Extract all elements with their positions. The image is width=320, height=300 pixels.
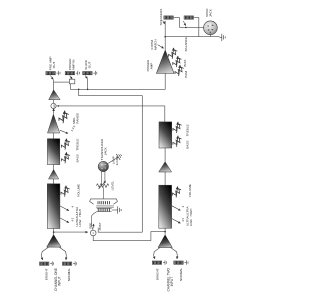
ground J8 tip	[163, 260, 167, 264]
jack switch loop J2	[69, 79, 74, 84]
ground J9 tip	[185, 260, 189, 264]
svg-text:HIGH: HIGH	[189, 209, 193, 217]
resistor VR10 hum pot	[172, 64, 185, 77]
wire speaker jack A lead	[174, 18, 180, 28]
resistor VR3 bass pot	[59, 152, 72, 165]
transformer T1 core	[96, 205, 114, 207]
svg-text:BASS: BASS	[76, 154, 80, 162]
wire tip bus to speaker connector	[179, 26, 203, 28]
svg-text:BALANCE: BALANCE	[184, 37, 188, 51]
wire sleeve bus to ground	[165, 36, 219, 38]
junction dot tip bus	[185, 27, 187, 29]
ground J4 tip	[50, 261, 54, 265]
svg-text:& GND: & GND	[115, 156, 119, 165]
wire U8 base to normal jack	[171, 248, 178, 256]
op-amp U2 tone amp	[48, 114, 60, 133]
transformer T1 secondary winding	[97, 207, 112, 209]
svg-text:OUT: OUT	[52, 62, 56, 69]
wire channel two S3 to U7	[164, 148, 166, 162]
resistor VR5 treble pot channel two	[170, 121, 183, 134]
op-amp U8 channel two preamp	[158, 235, 172, 248]
slider S3 bass-treble channel two	[159, 122, 172, 148]
wire channel two S4 to U8	[164, 228, 166, 235]
svg-text:INPUT: INPUT	[170, 277, 174, 287]
slider S2 volume	[47, 184, 60, 229]
junction dot sleeve bus	[164, 36, 166, 38]
svg-text:VOLUME: VOLUME	[188, 184, 192, 197]
svg-text:HIGH: HIGH	[78, 209, 82, 217]
connector J5 normal input channel one	[62, 262, 71, 265]
connector P1 speaker plug	[204, 21, 218, 35]
wire transducer leads	[101, 172, 103, 185]
connector J7 speaker jack B	[184, 16, 193, 19]
ground J2 tip	[76, 71, 80, 75]
wire main bus to power amp	[70, 73, 165, 89]
transformer T1 reverb primary shell	[90, 199, 118, 204]
svg-text:AMP IN: AMP IN	[71, 60, 75, 71]
wire mixer to channel two bus	[56, 106, 165, 122]
resistor VR11 level pot	[96, 181, 108, 189]
op-amp U3	[49, 170, 59, 180]
svg-text:LEVEL: LEVEL	[110, 180, 114, 190]
resistor VR7 volume pot channel two	[170, 186, 183, 199]
wire loop to main bus	[69, 84, 71, 90]
switch ultra high channel two	[172, 206, 181, 211]
ground J5 tip	[73, 261, 77, 265]
wire U4 base to bright jack	[41, 247, 48, 255]
svg-text:HUM: HUM	[184, 71, 188, 78]
switch mid-range selector arm	[60, 130, 68, 133]
junction dot bus A	[78, 89, 80, 91]
wire jack bus upper	[54, 81, 70, 83]
switch ultra low channel two	[172, 219, 181, 224]
ground J1 tip	[57, 71, 61, 75]
op-amp U1 channel one booster	[49, 90, 60, 100]
wire post contact to riser	[98, 228, 142, 233]
svg-text:NORMAL: NORMAL	[67, 268, 71, 282]
resistor VR4 volume pot	[58, 185, 71, 198]
svg-text:VOLUME: VOLUME	[76, 184, 80, 197]
wire power amp output riser	[164, 21, 166, 50]
wire 4 ohm match arrow	[158, 45, 164, 49]
junction dot bus B	[87, 89, 89, 91]
svg-text:PRE: PRE	[88, 223, 92, 229]
connector J9 normal input channel two	[174, 261, 183, 264]
svg-text:1 3 5: 1 3 5	[70, 124, 77, 132]
resistor VR8 balance pot	[166, 47, 179, 60]
wire lamp lead	[108, 158, 117, 163]
wire J2 contact	[70, 76, 73, 79]
svg-text:BRIGHT: BRIGHT	[44, 268, 48, 280]
svg-text:SPEAKERS: SPEAKERS	[159, 9, 163, 26]
wire S2 to U4	[53, 229, 55, 235]
wire J7 contact	[183, 21, 185, 26]
wire U2 to mixer arrow	[53, 109, 55, 114]
connector J6 speaker jack A	[164, 16, 173, 19]
op-amp U7 channel two	[159, 162, 172, 172]
wire reverb secondary to ground	[112, 209, 116, 211]
wire preamp-out riser to amp U1 apex	[53, 80, 55, 90]
switch SW1 pre-post selector	[90, 230, 96, 236]
svg-text:RANGE: RANGE	[75, 113, 79, 124]
svg-text:MATCH: MATCH	[154, 39, 158, 50]
wire level to reverb transformer	[102, 187, 104, 199]
slider S1 bass-treble	[47, 139, 59, 165]
resistor VR2 treble pot	[59, 138, 72, 151]
svg-text:TREBLE: TREBLE	[185, 124, 189, 136]
wire post branch down	[79, 89, 143, 232]
svg-text:JACK: JACK	[103, 146, 107, 155]
ground J3 tip	[93, 71, 97, 75]
wire J6 contact	[163, 21, 165, 24]
svg-text:INPUT: INPUT	[57, 276, 61, 286]
svg-text:LOW: LOW	[78, 219, 82, 226]
connector J4 bright input channel one	[40, 262, 49, 265]
junction dot channel one out	[53, 231, 55, 233]
connector J2 power amp in	[65, 72, 74, 75]
transformer T1 primary winding	[98, 201, 109, 204]
svg-text:TREBLE: TREBLE	[76, 139, 80, 151]
slider S4 volume channel two	[159, 185, 172, 228]
wire S1 to U3	[53, 165, 55, 170]
connector J1 pre amp out	[46, 72, 55, 75]
svg-text:POST: POST	[98, 222, 102, 230]
ground speaker return	[220, 34, 226, 41]
ground lamp	[114, 152, 123, 161]
wire U4 base to normal jack	[59, 247, 66, 255]
wire J1 contact	[50, 76, 53, 80]
switch arm arrow	[92, 224, 95, 228]
wire U8 base to bright jack	[154, 248, 160, 256]
svg-text:OUT: OUT	[88, 62, 92, 69]
svg-text:JACK: JACK	[209, 8, 213, 17]
wire U2 to slider S1	[53, 133, 55, 139]
wire switch common to channel two	[93, 232, 165, 241]
node mixer M1	[51, 103, 56, 108]
wire channel one preamp line to reverb switch	[54, 231, 88, 233]
switch ultra high channel one	[60, 206, 69, 211]
resistor VR6 bass pot channel two	[170, 135, 183, 148]
svg-text:BRIGHT: BRIGHT	[156, 268, 160, 280]
wire reverb secondary to switch	[92, 212, 97, 230]
junction dot mixer out	[58, 105, 60, 107]
svg-text:LOW: LOW	[189, 219, 193, 226]
ground reverb	[116, 206, 122, 213]
svg-text:BIAS: BIAS	[183, 60, 187, 67]
junction dot channel two out	[164, 231, 166, 233]
svg-text:AMP: AMP	[149, 63, 153, 70]
switch ultra low channel one	[60, 218, 69, 223]
connector P2 transducer jack	[98, 161, 108, 171]
connector J8 bright input channel two	[152, 261, 161, 264]
wire slave-out riser	[87, 79, 89, 89]
wire connector stub	[209, 35, 211, 37]
wire U3 to slider S2	[53, 179, 55, 184]
wire speaker jack B lead	[194, 18, 199, 37]
op-amp U4 channel one preamp	[47, 235, 61, 247]
connector J3 slave out	[83, 72, 92, 75]
wire channel two U7 to S4	[164, 172, 166, 185]
wire J3 contact	[85, 76, 87, 79]
resistor VR9 bias pot	[170, 55, 183, 68]
wire U1 to mixer	[53, 100, 55, 104]
svg-text:NORMAL: NORMAL	[179, 267, 183, 281]
svg-text:BASS: BASS	[185, 141, 189, 149]
resistor VR1 mid-range pot	[56, 110, 71, 124]
op-amp U5 power amp	[156, 50, 174, 73]
